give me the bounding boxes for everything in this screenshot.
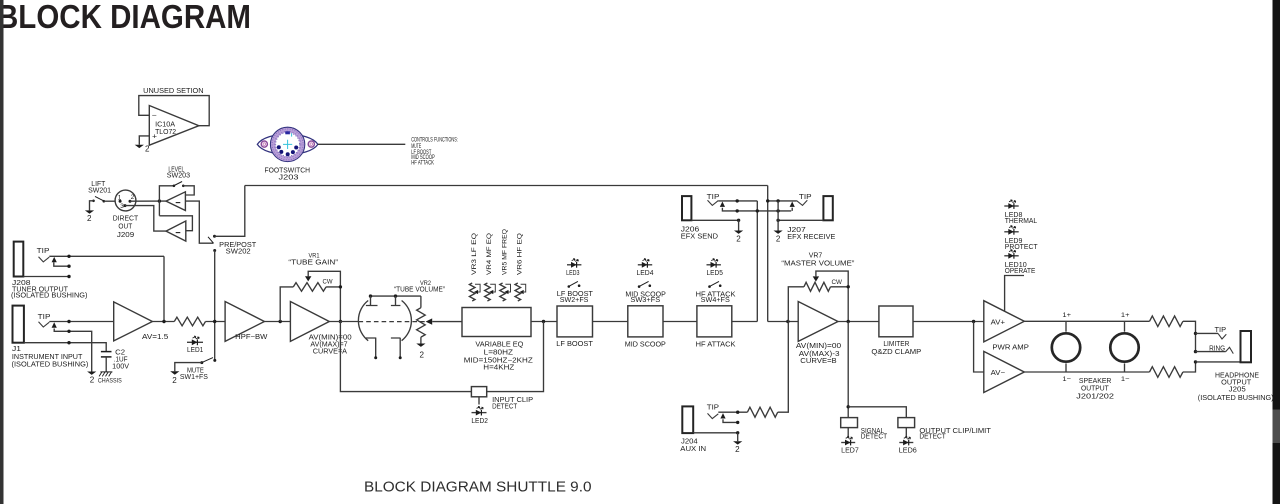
wire operate underline to AV+: [1005, 276, 1024, 312]
tube grid left: [366, 296, 378, 305]
svg-text:AV(MIN)=00: AV(MIN)=00: [796, 343, 841, 350]
wire HF out to send: [732, 321, 758, 323]
potentiometer VR6 (VR6 HF EQ): [515, 283, 521, 301]
wire signal detect stem: [847, 428, 849, 438]
node SW202 lower contact: [213, 249, 216, 252]
svg-text:CURVE=A: CURVE=A: [313, 348, 348, 355]
block HF ATTACK: [697, 306, 732, 337]
jack J206 EFX send: [682, 196, 691, 220]
svg-text:TIP: TIP: [1215, 327, 1227, 334]
LED3: [567, 264, 581, 266]
wire buffer loop right: [183, 186, 194, 195]
wire clip detect to EQ node: [487, 322, 544, 392]
J1 tip contact: [39, 322, 50, 327]
tube cathode right: [391, 338, 401, 358]
node pre tap / mute tap: [213, 320, 216, 323]
svg-text:LED4: LED4: [637, 270, 654, 277]
resistor R input: [174, 317, 205, 326]
svg-text:100V: 100V: [112, 364, 129, 371]
wire EFX return to master amp: [768, 321, 799, 323]
connector J209 direct out circle: [115, 190, 136, 211]
svg-text:LED7: LED7: [841, 448, 859, 455]
svg-text:J201/202: J201/202: [1076, 393, 1114, 400]
block LF BOOST: [557, 306, 593, 337]
potentiometer VR1: [293, 283, 326, 292]
switch SW2: [568, 285, 571, 288]
wire master out to limiter: [838, 321, 879, 323]
switch SW1 mute: [213, 359, 216, 362]
wire J204 sleeve: [693, 432, 738, 434]
wire J207 tip line: [768, 200, 797, 202]
potentiometer VR5 (VR5 MF FREQ): [500, 283, 506, 301]
headphone ring contact: [1226, 347, 1234, 353]
svg-text:MID=150HZ−2KHZ: MID=150HZ−2KHZ: [464, 357, 534, 364]
op-amp master volume: [798, 302, 838, 342]
chassis ground C2: [100, 371, 112, 373]
wire HPF out: [264, 321, 290, 323]
svg-text:LF BOOST: LF BOOST: [556, 341, 593, 348]
wire resistor to HPF: [206, 321, 226, 323]
svg-text:HPF−BW: HPF−BW: [235, 334, 268, 341]
footswitch DIN speckled ring: [273, 130, 302, 159]
tube envelope right arc: [402, 301, 412, 341]
svg-text:2: 2: [87, 214, 92, 223]
svg-text:VR6 HF EQ: VR6 HF EQ: [518, 233, 524, 275]
svg-text:DETECT: DETECT: [861, 434, 888, 441]
block MID SCOOP: [628, 306, 663, 337]
wire clip detect loop: [340, 322, 471, 392]
wire VR1 left leg: [280, 287, 293, 322]
ground IC10A: [135, 145, 144, 148]
svg-text:VR1: VR1: [309, 253, 320, 260]
svg-text:TLO72: TLO72: [155, 129, 176, 136]
wire J208 sleeve stub: [23, 276, 69, 278]
svg-text:(ISOLATED BUSHING): (ISOLATED BUSHING): [11, 293, 88, 300]
svg-text:TIP: TIP: [37, 248, 50, 255]
tube grid right: [391, 296, 401, 305]
wire J207 arrow stem: [791, 208, 793, 211]
wire J209 pin2 to buffer: [130, 200, 166, 202]
svg-text:OUT: OUT: [118, 224, 132, 231]
wire tuner tap vertical: [163, 256, 165, 321]
svg-text:BLOCK DIAGRAM: BLOCK DIAGRAM: [0, 0, 251, 36]
svg-text:FOOTSWITCH: FOOTSWITCH: [265, 167, 311, 174]
wire EQ out: [531, 321, 557, 323]
footswitch pins: [277, 145, 281, 149]
jack J1 instrument input: [13, 306, 24, 343]
wire J208 ring stub: [54, 262, 69, 266]
wire footswitch to note: [318, 143, 405, 145]
svg-text:AV(MAX)-3: AV(MAX)-3: [799, 351, 840, 358]
svg-text:Q&ZD CLAMP: Q&ZD CLAMP: [871, 349, 921, 356]
block VARIABLE EQ: [462, 308, 531, 337]
footswitch mounting ear right: [308, 141, 314, 147]
J208 switch arrow: [52, 257, 57, 262]
speaker tick 1+ right: [1124, 321, 1126, 331]
svg-text:VR3 LF EQ: VR3 LF EQ: [472, 233, 478, 275]
right scrollbar thumb: [1273, 410, 1280, 444]
VR2 wiper arrow: [426, 318, 433, 324]
svg-text:CW: CW: [323, 279, 334, 286]
switch SW202 pre/post: [208, 237, 214, 243]
wire limiter to pwr amp: [913, 321, 984, 323]
wire to output detect: [848, 407, 906, 418]
wire VR7 right leg: [831, 287, 849, 322]
svg-text:VARIABLE EQ: VARIABLE EQ: [475, 341, 524, 348]
VR2 ground: [420, 337, 422, 343]
wire to AV- input: [974, 322, 984, 373]
tube cathode left: [366, 338, 376, 358]
svg-text:VR5 MF FREQ: VR5 MF FREQ: [502, 229, 508, 275]
wire SW202 down to main line and mute: [214, 251, 216, 361]
wire top resistor to jack node: [1183, 321, 1196, 351]
wire buffer loop left: [159, 186, 174, 216]
op-amp PWR AMP AV+: [984, 301, 1025, 342]
tube envelope left arc: [358, 301, 368, 341]
wire J204 tip to resistor: [718, 411, 747, 413]
potentiometer VR2: [420, 296, 422, 308]
svg-text:OPERATE: OPERATE: [1005, 268, 1036, 275]
J207 switch arrow: [790, 202, 795, 207]
wire buffer bottom link: [159, 216, 192, 231]
svg-text:J1: J1: [12, 346, 21, 353]
svg-text:AV+: AV+: [991, 319, 1005, 326]
footswitch connector J203 flange: [257, 134, 318, 154]
svg-text:TIP: TIP: [707, 404, 720, 411]
node VR1 left tap: [279, 320, 282, 323]
left page edge bar: [0, 0, 4, 504]
svg-text:AV(MAX)=7: AV(MAX)=7: [310, 341, 347, 348]
buffer amp top (level): [166, 192, 185, 211]
svg-text:2: 2: [90, 375, 95, 384]
svg-text:SW201: SW201: [88, 188, 111, 195]
wire SW201 to J209 pin1: [104, 200, 116, 202]
jack J204 aux in: [682, 406, 693, 433]
wire EFX send vertical: [756, 201, 758, 322]
ground J206: [734, 231, 743, 234]
svg-text:SW1+FS: SW1+FS: [180, 374, 208, 381]
svg-text:LED5: LED5: [707, 270, 723, 277]
svg-text:SW203: SW203: [167, 173, 190, 180]
wire SW202 to top bus: [215, 186, 245, 237]
switch SW201: [92, 200, 95, 203]
LED10: [1004, 255, 1018, 257]
svg-text:C2: C2: [115, 349, 125, 356]
speaker tick 1- left: [1065, 363, 1067, 372]
block LIMITER Q&ZD CLAMP: [879, 306, 913, 337]
op-amp input buffer AV=1.5: [114, 302, 153, 341]
svg-text:LIMITER: LIMITER: [883, 341, 909, 348]
footswitch key notch: [285, 131, 290, 134]
J204 tip contact: [708, 413, 719, 418]
svg-text:1−: 1−: [1121, 376, 1130, 383]
svg-text:RING: RING: [1209, 346, 1225, 353]
svg-text:“TUBE GAIN”: “TUBE GAIN”: [288, 260, 338, 267]
wire J206 sleeve: [691, 219, 738, 221]
wire amp out: [152, 321, 174, 323]
svg-text:J204: J204: [681, 439, 698, 446]
LED8: [1004, 205, 1018, 207]
wire J206 tip line: [718, 200, 757, 202]
jack J205 headphone: [1241, 331, 1252, 362]
ground J1 ring: [87, 372, 96, 375]
svg-text:PROTECT: PROTECT: [1005, 244, 1039, 251]
svg-text:(ISOLATED BUSHING): (ISOLATED BUSHING): [12, 361, 89, 368]
wire master tap down: [847, 322, 849, 418]
potentiometer VR7: [804, 282, 831, 291]
node clip detect tap: [542, 320, 545, 323]
svg-text:CW: CW: [832, 279, 843, 286]
jack J208 tuner output: [14, 242, 24, 277]
switch SW203: [173, 185, 176, 188]
wire AV- out bus: [1024, 371, 1149, 373]
LED7: [841, 442, 855, 444]
svg-text:UNUSED SETION: UNUSED SETION: [143, 88, 203, 95]
wire tube gain out: [329, 321, 358, 323]
svg-text:SW2+FS: SW2+FS: [560, 297, 589, 304]
svg-text:DIRECT: DIRECT: [113, 216, 139, 223]
svg-text:OUTPUT: OUTPUT: [1221, 379, 1252, 386]
svg-text:CHASSIS: CHASSIS: [98, 378, 122, 385]
op-amp U IC10A TLO72: [149, 106, 199, 146]
node VR1 right tap: [339, 320, 342, 323]
svg-text:L=80HZ: L=80HZ: [484, 349, 514, 356]
wire J209 pin3 to bottom buffer: [125, 206, 166, 232]
buffer amp bottom (level): [166, 221, 186, 241]
svg-text:IC10A: IC10A: [155, 121, 175, 128]
ground SW201: [85, 210, 94, 213]
wire headphone sleeve: [1196, 361, 1241, 363]
wire AV+ out bus: [1024, 320, 1149, 322]
svg-text:LED3: LED3: [566, 270, 579, 277]
op-amp tube gain stage: [290, 302, 329, 342]
ground J204: [733, 441, 742, 444]
tube grid top wire: [371, 295, 421, 297]
svg-text:THERMAL: THERMAL: [1005, 218, 1037, 225]
svg-text:VR7: VR7: [809, 253, 823, 260]
wire J1 sleeve to C2: [24, 343, 106, 352]
node detect branch: [847, 405, 850, 408]
LED1: [187, 341, 203, 343]
wire J1 ring to ground: [54, 329, 91, 372]
speaker tick 1- right: [1124, 363, 1126, 372]
svg-text:2: 2: [736, 235, 741, 244]
right scrollbar track: [1273, 0, 1280, 504]
speaker jack circle right: [1110, 333, 1138, 361]
wire J208 tip line: [49, 255, 164, 257]
J207 tip contact: [797, 200, 808, 205]
svg-text:DETECT: DETECT: [919, 434, 946, 441]
LED4: [638, 264, 652, 266]
svg-text:TIP: TIP: [799, 194, 812, 201]
node master out tap: [847, 320, 850, 323]
svg-text:SW4+FS: SW4+FS: [701, 297, 730, 304]
LED2: [472, 412, 487, 414]
J206 tip contact: [708, 200, 719, 205]
svg-text:EFX RECEIVE: EFX RECEIVE: [787, 234, 835, 241]
speaker tick 1+ left: [1065, 321, 1067, 331]
svg-text:AUX IN: AUX IN: [680, 446, 706, 453]
resistor headphone top: [1150, 316, 1183, 327]
wire headphone tip: [1196, 332, 1219, 334]
LED5: [707, 264, 721, 266]
node junction buffer input: [158, 199, 161, 202]
wire clip box stem: [478, 397, 480, 405]
svg-text:BLOCK DIAGRAM SHUTTLE 9.0: BLOCK DIAGRAM SHUTTLE 9.0: [364, 478, 592, 495]
svg-text:SW3+FS: SW3+FS: [630, 297, 660, 304]
wire feedback loop IC10A: [139, 96, 209, 126]
wire VR7 left leg: [788, 287, 804, 322]
svg-text:LED1: LED1: [187, 347, 203, 354]
switch SW4: [708, 285, 711, 288]
wire J204 ring stub: [723, 419, 738, 422]
svg-text:CURVE=B: CURVE=B: [800, 358, 837, 365]
wire EFX normal line: [722, 208, 791, 211]
ground mute: [170, 371, 179, 374]
svg-text:.1UF: .1UF: [114, 357, 128, 364]
J209 pin dots: [119, 200, 122, 203]
svg-text:2: 2: [735, 445, 740, 454]
wire VR1 right leg: [326, 287, 340, 322]
svg-text:TIP: TIP: [38, 314, 51, 321]
switch SW3: [638, 285, 641, 288]
block input clip detect: [471, 387, 486, 397]
svg-text:TIP: TIP: [707, 194, 720, 201]
svg-text:−: −: [152, 112, 157, 119]
headphone tip contact: [1218, 333, 1226, 339]
wire headphone ring: [1196, 351, 1226, 353]
svg-text:1−: 1−: [1062, 376, 1071, 383]
wire EFX return vertical: [767, 186, 769, 322]
LED9: [1004, 231, 1018, 233]
wire bottom resistor to sleeve: [1183, 362, 1196, 372]
wire J1 tip to amp: [49, 321, 113, 323]
op-amp HPF-BW: [225, 302, 264, 342]
VR1 wiper: [305, 276, 311, 281]
svg-text:J203: J203: [279, 175, 299, 182]
svg-text:AV=1.5: AV=1.5: [142, 334, 168, 341]
svg-text:J209: J209: [117, 232, 134, 239]
svg-text:“TUBE VOLUME”: “TUBE VOLUME”: [394, 287, 446, 294]
svg-text:OUTPUT: OUTPUT: [1081, 386, 1109, 393]
svg-text:LED2: LED2: [471, 418, 488, 425]
wire IC10A + input: [139, 136, 149, 145]
svg-text:DETECT: DETECT: [492, 403, 518, 410]
LED6: [899, 442, 913, 444]
svg-text:(ISOLATED BUSHING): (ISOLATED BUSHING): [1198, 395, 1274, 402]
node aux mix: [786, 320, 789, 323]
svg-text:HF ATTACK: HF ATTACK: [411, 160, 434, 167]
J206 switch arrow: [720, 202, 725, 207]
ground J207: [774, 231, 783, 234]
svg-text:MID SCOOP: MID SCOOP: [625, 341, 666, 348]
wire aux to mix node: [778, 322, 789, 413]
footswitch DIN body circle: [271, 127, 305, 161]
svg-text:“MASTER VOLUME”: “MASTER VOLUME”: [781, 261, 855, 268]
svg-text:2: 2: [172, 376, 177, 385]
svg-text:PWR AMP: PWR AMP: [992, 344, 1029, 351]
svg-text:2: 2: [776, 235, 781, 244]
VR7 wiper: [813, 276, 819, 281]
svg-text:SW202: SW202: [226, 248, 251, 255]
wire J207 sleeve: [778, 219, 823, 221]
footswitch mounting ear left: [261, 141, 267, 147]
svg-text:SPEAKER: SPEAKER: [1079, 378, 1112, 385]
potentiometer VR3 (VR3 LF EQ): [469, 283, 475, 301]
node tuner tap: [162, 320, 165, 323]
jack J207 EFX receive: [823, 196, 832, 220]
footswitch center cross: [283, 140, 292, 149]
tube dashed signal path: [359, 321, 426, 323]
svg-text:VR4 MF EQ: VR4 MF EQ: [487, 233, 493, 275]
wire top bus pre/post to EFX return: [245, 185, 768, 187]
wire buffer top output to SW202: [185, 201, 213, 243]
J1 switch arrow: [52, 322, 57, 327]
block signal detect: [841, 418, 858, 428]
block output clip/limit detect: [898, 418, 915, 428]
resistor headphone bottom: [1150, 367, 1183, 378]
resistor aux: [747, 407, 777, 417]
svg-text:HF ATTACK: HF ATTACK: [696, 341, 736, 348]
wire MID to HF: [663, 321, 697, 323]
wire SW201 to ground: [90, 201, 94, 211]
svg-text:1+: 1+: [1062, 312, 1071, 319]
wire output detect stem: [905, 428, 907, 438]
speaker jack circle left: [1052, 333, 1080, 361]
J208 tip contact: [39, 257, 50, 262]
svg-text:2: 2: [145, 145, 150, 154]
svg-text:INSTRUMENT INPUT: INSTRUMENT INPUT: [12, 354, 83, 361]
svg-text:H=4KHZ: H=4KHZ: [483, 364, 515, 371]
wire mute to ground: [175, 363, 202, 372]
op-amp PWR AMP AV-: [984, 351, 1025, 392]
svg-text:LED6: LED6: [899, 448, 917, 455]
svg-text:EFX SEND: EFX SEND: [681, 234, 718, 241]
potentiometer VR4 (VR4 MF EQ): [485, 283, 491, 301]
wire LF to MID: [593, 321, 628, 323]
node pwr amp input split: [972, 320, 975, 323]
J204 switch arrow: [720, 413, 725, 418]
svg-text:J207: J207: [787, 227, 806, 234]
svg-text:2: 2: [420, 350, 425, 359]
svg-text:1+: 1+: [1121, 312, 1130, 319]
svg-text:AV−: AV−: [991, 370, 1005, 377]
svg-text:J205: J205: [1229, 386, 1246, 393]
capacitor C2: [101, 351, 112, 353]
